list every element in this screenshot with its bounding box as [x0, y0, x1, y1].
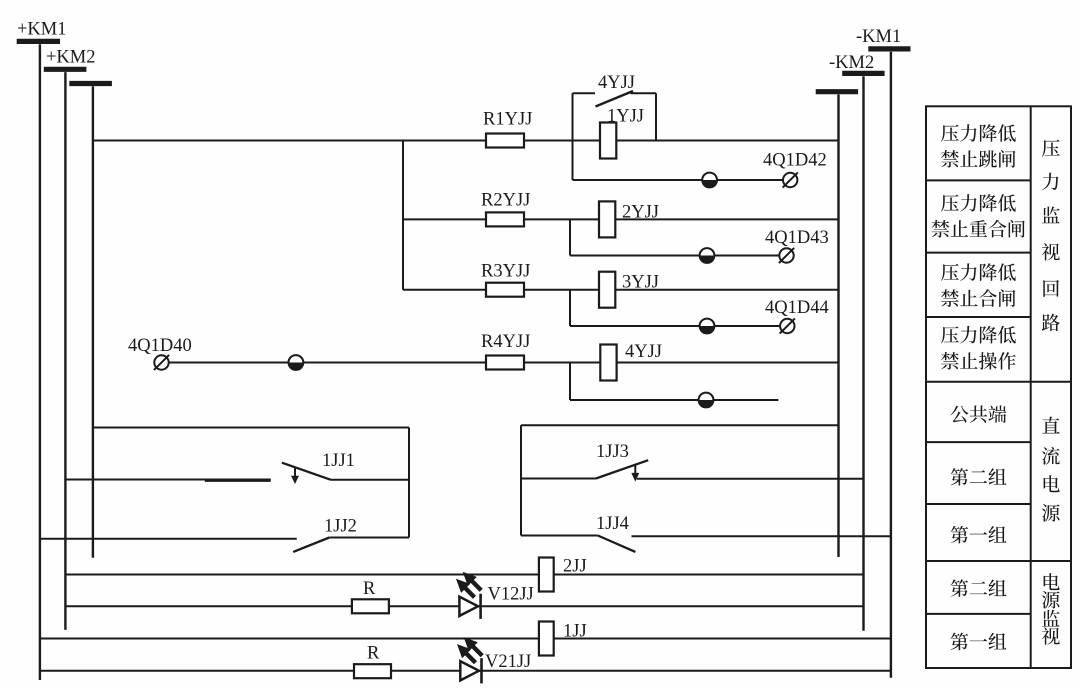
svg-text:4Q1D44: 4Q1D44 — [765, 298, 829, 318]
svg-text:3YJJ: 3YJJ — [622, 273, 659, 293]
svg-text:+KM1: +KM1 — [17, 20, 67, 40]
svg-text:1JJ2: 1JJ2 — [324, 517, 357, 537]
svg-text:V21JJ: V21JJ — [485, 652, 531, 672]
svg-text:2YJJ: 2YJJ — [622, 203, 659, 223]
svg-text:R3YJJ: R3YJJ — [481, 262, 530, 282]
svg-text:+KM2: +KM2 — [46, 48, 96, 68]
svg-text:V12JJ: V12JJ — [488, 585, 534, 605]
svg-text:R2YJJ: R2YJJ — [481, 191, 530, 211]
svg-text:-KM1: -KM1 — [856, 27, 901, 47]
svg-text:4YJJ: 4YJJ — [625, 342, 662, 362]
svg-text:R4YJJ: R4YJJ — [481, 332, 530, 352]
svg-text:4Q1D43: 4Q1D43 — [765, 228, 829, 248]
svg-text:1JJ: 1JJ — [563, 622, 587, 642]
svg-text:1JJ1: 1JJ1 — [322, 451, 355, 471]
svg-text:4Q1D42: 4Q1D42 — [763, 151, 827, 171]
svg-text:1JJ3: 1JJ3 — [596, 442, 629, 462]
svg-text:R: R — [363, 579, 376, 599]
svg-text:4YJJ: 4YJJ — [598, 73, 635, 93]
svg-text:R1YJJ: R1YJJ — [483, 110, 532, 130]
svg-text:-KM2: -KM2 — [829, 53, 874, 73]
svg-text:1YJJ: 1YJJ — [607, 107, 644, 127]
svg-text:4Q1D40: 4Q1D40 — [128, 336, 192, 356]
svg-text:R: R — [367, 644, 380, 664]
svg-text:1JJ4: 1JJ4 — [596, 514, 629, 534]
svg-text:2JJ: 2JJ — [563, 557, 587, 577]
